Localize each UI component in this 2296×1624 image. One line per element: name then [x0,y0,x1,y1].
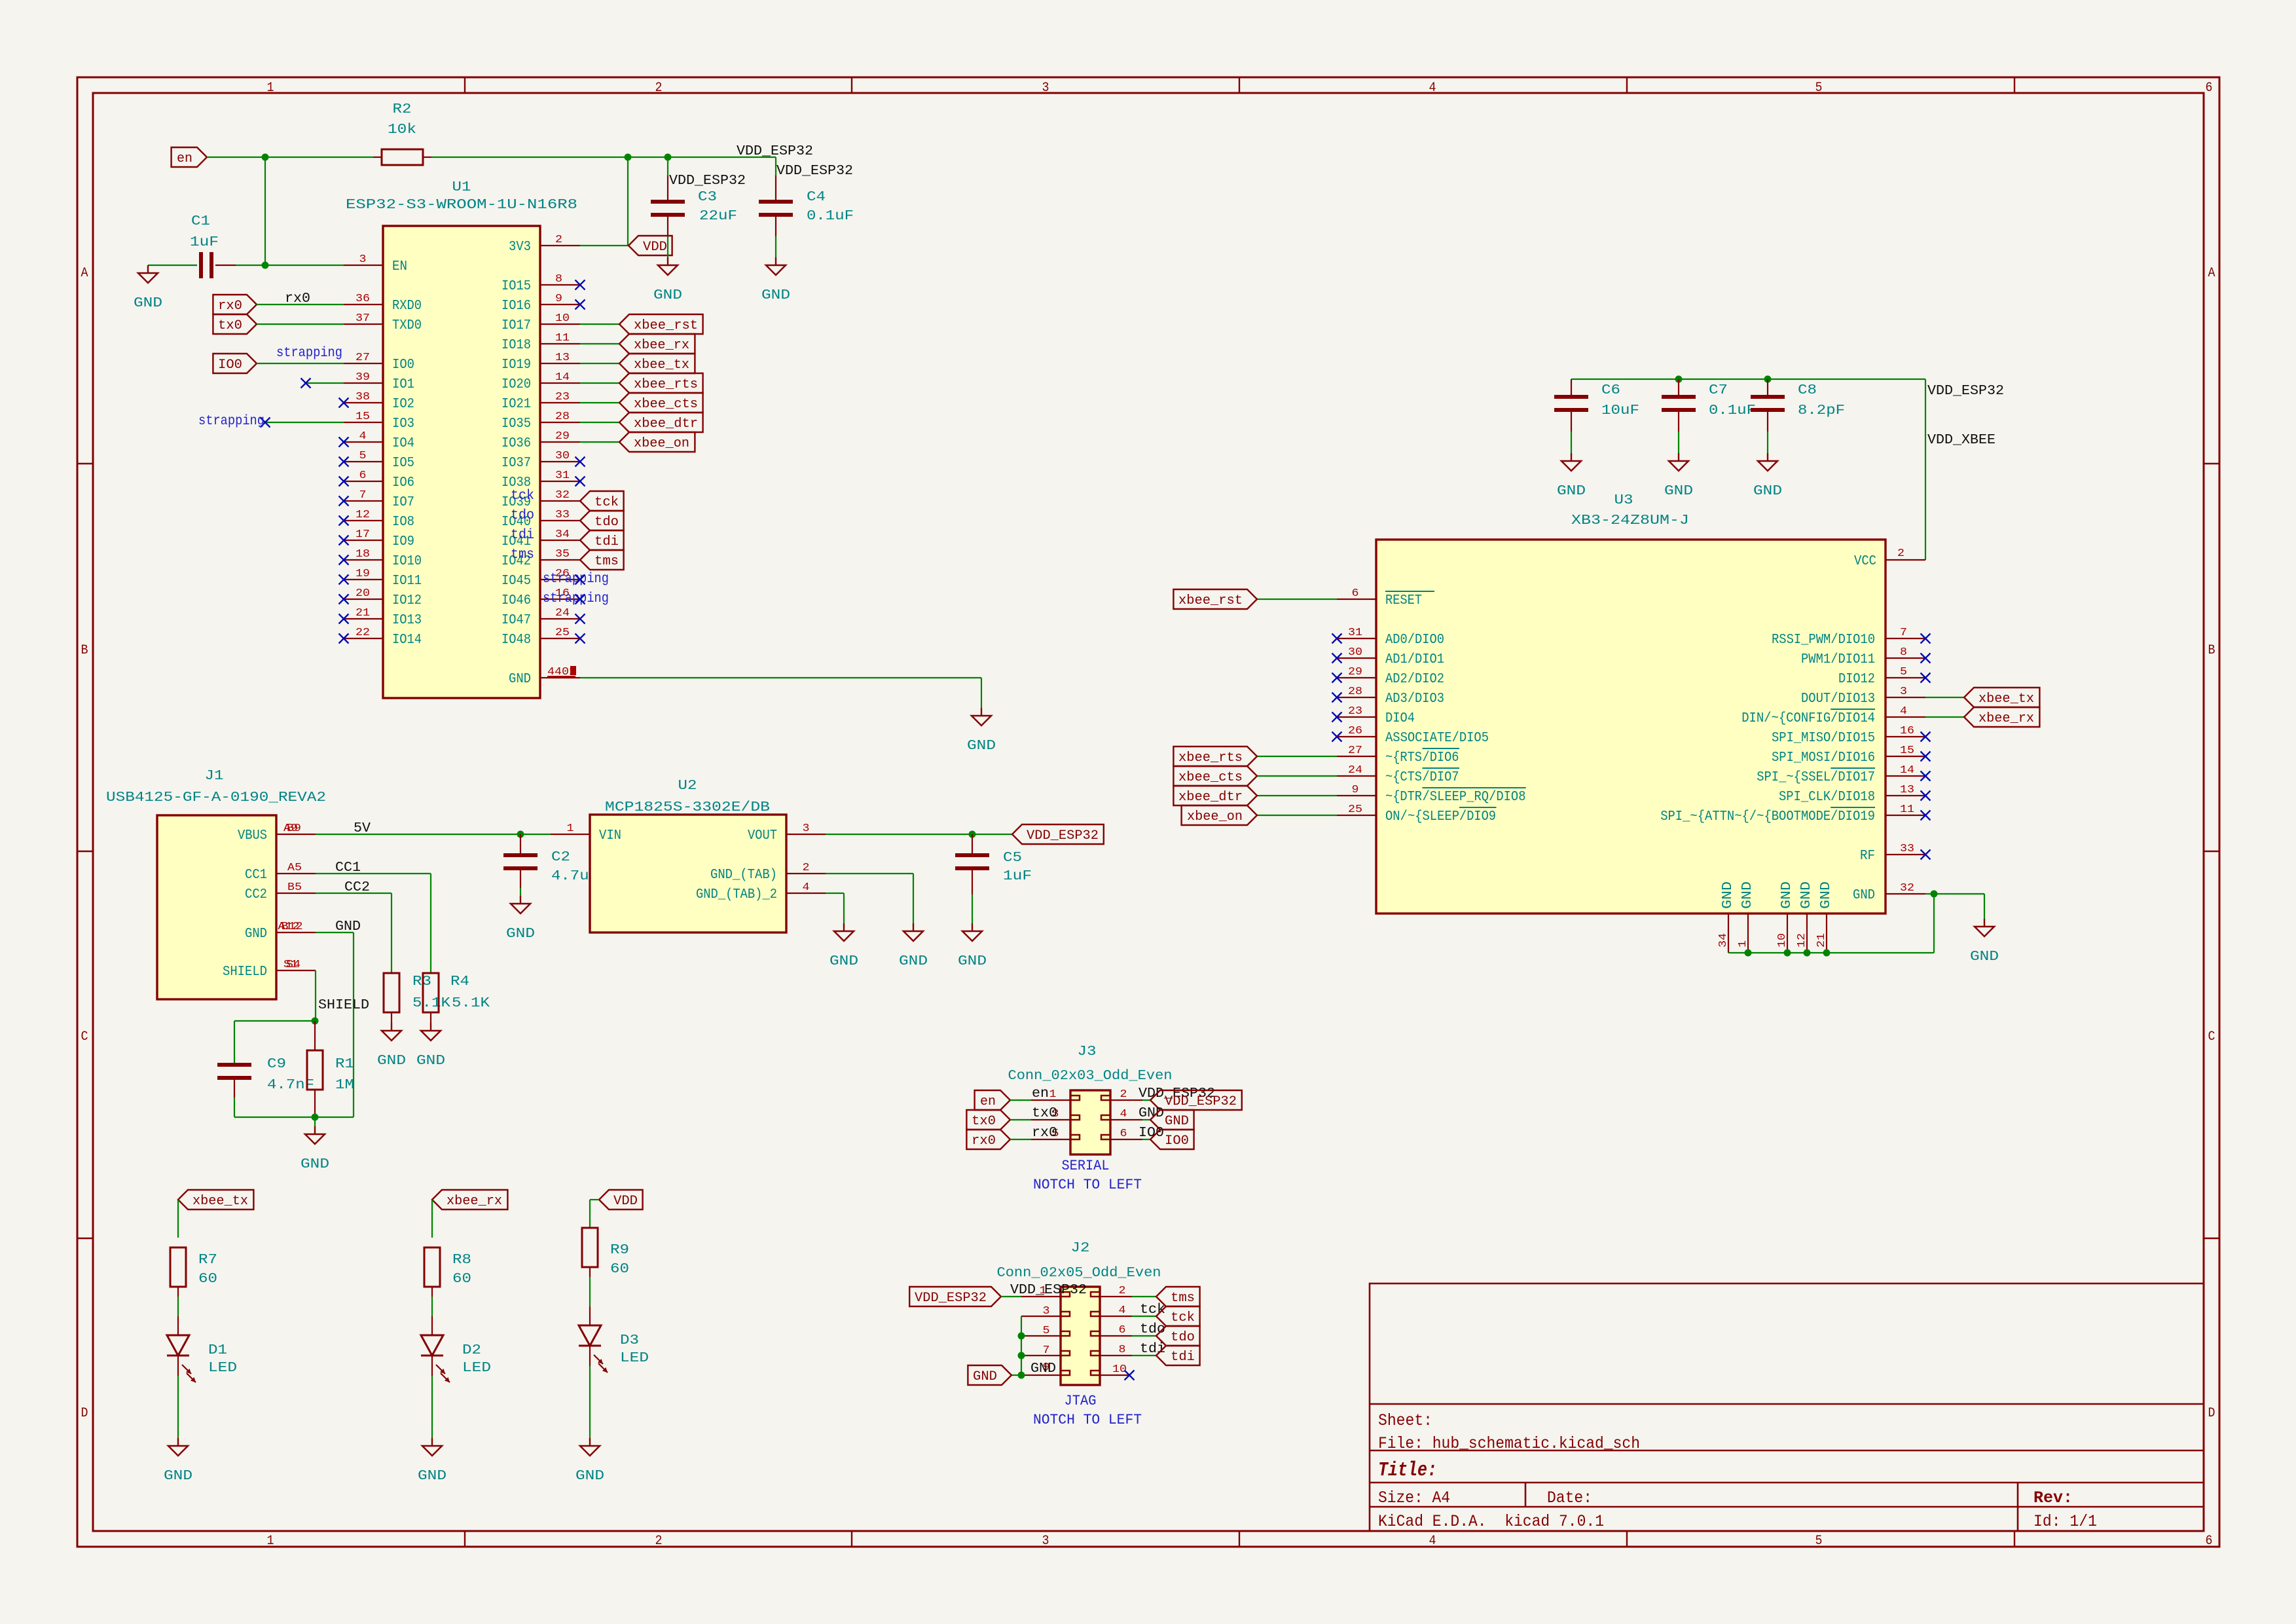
svg-text:GND: GND [1853,888,1875,903]
svg-text:9: 9 [555,293,562,305]
global label xbee_dtr [619,413,703,432]
svg-text:3: 3 [803,822,810,835]
svg-text:29: 29 [555,430,570,443]
svg-text:4: 4 [1429,1534,1436,1549]
svg-text:GND_(TAB): GND_(TAB) [710,868,777,883]
svg-text:xbee_rx: xbee_rx [446,1194,502,1209]
svg-text:VDD_ESP32: VDD_ESP32 [1165,1094,1237,1109]
U1 pin 27 IO0 [344,352,414,373]
wire U2 pin2 gnd [826,873,913,874]
global label IO0 J3 [1150,1130,1194,1149]
svg-text:2: 2 [803,862,810,874]
svg-text:5: 5 [1815,81,1823,96]
svg-text:1uF: 1uF [190,235,219,250]
wire IO0 [257,363,344,364]
capacitor C5 [955,834,1032,923]
no-connect U3 left [1332,634,1342,644]
ground symbol C4 [761,257,790,303]
global label tck [580,491,624,511]
U2 pin 4 GND_(TAB)_2 [696,881,826,902]
J1 pin S1 SHIELD [223,959,316,980]
wire en rail left of R2 [207,157,373,158]
svg-text:10: 10 [1776,933,1789,948]
svg-text:0.1uF: 0.1uF [1709,403,1756,418]
svg-text:VDD: VDD [613,1194,638,1209]
svg-text:tck: tck [511,489,534,504]
svg-text:3: 3 [359,253,367,266]
svg-text:LED: LED [462,1361,491,1376]
global label xbee_tx LED branch [178,1190,253,1209]
no-connect U1 left [339,437,349,447]
global label xbee_cts [619,393,703,413]
J3 pin 6 [1110,1139,1142,1140]
svg-text:NOTCH TO LEFT: NOTCH TO LEFT [1033,1412,1142,1428]
U1 pin 3 EN [344,253,407,274]
svg-text:7: 7 [1900,627,1907,639]
no-connect U1 left [339,536,349,545]
svg-text:VOUT: VOUT [748,828,777,843]
ground symbol R4 [416,1023,445,1069]
no-connect U1 left [339,496,349,506]
svg-text:RESET: RESET [1385,593,1422,608]
U3 pin 13 SPI_CLK/DIO18 [1779,784,1925,805]
svg-text:14: 14 [1900,764,1914,777]
svg-text:GND_(TAB)_2: GND_(TAB)_2 [696,887,777,902]
svg-text:tdi: tdi [594,534,619,549]
wire R9 to D3 [589,1267,591,1277]
LED D1 [167,1335,196,1382]
svg-text:D: D [2208,1406,2215,1421]
svg-text:B: B [2208,643,2215,658]
svg-text:~{CTS: ~{CTS [1385,770,1422,785]
svg-text:IO3: IO3 [392,416,414,432]
junction GND bus [1745,950,1752,957]
svg-text:C1: C1 [191,214,210,229]
svg-text:C3: C3 [698,190,717,205]
resistor R7 [170,1247,217,1287]
svg-text:10: 10 [555,312,570,325]
global label xbee_on [619,432,695,452]
svg-text:2: 2 [655,81,663,96]
title block [1370,1283,2204,1531]
ground symbol C7 [1664,453,1693,499]
U3 GND pin 10 [1776,881,1795,953]
svg-text:IO7: IO7 [392,495,414,510]
svg-text:IO47: IO47 [501,613,531,628]
U3 pin 32 GND [1853,882,1925,903]
svg-text:~{RTS: ~{RTS [1385,750,1422,766]
U1 pin 35 IO42 [501,548,580,569]
U1 pin 31 IO38 [501,470,580,490]
svg-text:xbee_dtr: xbee_dtr [634,416,698,432]
no-connect U3 right [1921,634,1931,644]
svg-text:D1: D1 [208,1343,227,1358]
ground symbol C6 [1557,453,1586,499]
svg-text:2: 2 [555,234,562,246]
wire SHIELD net [315,970,316,1021]
wire en J3 [1010,1099,1031,1101]
svg-text:GND: GND [418,1469,446,1484]
svg-text:60: 60 [452,1272,471,1287]
svg-text:VDD_ESP32: VDD_ESP32 [1927,384,2004,399]
global label xbee_rst [619,314,703,334]
global label tms [580,550,624,570]
global label xbee_dtr U3 [1173,786,1257,805]
J3 pin socket left [1070,1115,1080,1120]
svg-text:Sheet:: Sheet: [1378,1411,1432,1430]
wire 5V net [316,834,551,835]
svg-text:GND: GND [245,927,267,942]
ground symbol D3 [575,1438,604,1484]
svg-text:C9: C9 [267,1057,286,1072]
svg-text:DOUT/DIO13: DOUT/DIO13 [1801,692,1875,707]
svg-text:VCC: VCC [1854,554,1876,569]
U1 pin 19 IO11 [344,568,422,589]
no-connect U3 right [1921,791,1931,801]
U3 pin 3 DOUT/DIO13 [1801,686,1925,707]
svg-text:GND: GND [653,288,682,303]
no-connect IO3 with wire [265,422,344,423]
no-connect U3 right [1921,732,1931,742]
U1 pin 7 IO7 [344,489,414,510]
global label VDD_ESP32 J3 [1150,1090,1242,1110]
svg-text:26: 26 [1348,725,1362,737]
capacitor C2 [503,834,598,896]
wire tms J2 [1132,1296,1156,1297]
svg-text:GND: GND [973,1369,997,1384]
U1 pin 28 IO35 [501,411,580,432]
svg-text:GND: GND [575,1469,604,1484]
global label xbee_cts U3 [1173,766,1257,786]
svg-text:GND: GND [899,954,928,969]
svg-text:IO18: IO18 [501,338,531,353]
svg-text:GND: GND [1557,484,1586,499]
svg-text:rx0: rx0 [285,291,310,306]
svg-text:R9: R9 [610,1243,629,1258]
svg-text:TXD0: TXD0 [392,318,422,333]
J2 pin socket left [1061,1312,1070,1316]
svg-text:GND: GND [958,954,987,969]
svg-text:VDD_ESP32: VDD_ESP32 [669,174,746,189]
svg-text:20: 20 [355,587,370,600]
U3 pin 25 ON/~{SLEEP/DIO9 [1337,803,1497,824]
svg-text:VDD_XBEE: VDD_XBEE [1927,433,1995,448]
svg-text:EN: EN [392,259,407,274]
svg-text:30: 30 [1348,646,1362,659]
svg-text:strapping: strapping [198,414,264,429]
J3 pin 1 [1031,1099,1070,1101]
svg-text:D: D [81,1406,88,1421]
no-connect U1 left [339,555,349,565]
svg-text:VIN: VIN [599,828,621,843]
no-connect U1 left [339,595,349,604]
wire xbee_on U3 [1257,815,1337,816]
svg-text:4: 4 [359,430,367,443]
wire xbee_rx branch top [431,1200,433,1238]
wire xbee_cts U3 [1257,775,1337,777]
global label xbee_rx LED branch [432,1190,507,1209]
no-connect U1 left [339,477,349,487]
svg-text:B5: B5 [287,881,302,894]
svg-text:1: 1 [267,81,274,96]
svg-text:GND: GND [134,296,162,311]
wire GND pin32 to ground [1925,893,1984,895]
U3 pin 8 PWM1/DIO11 [1801,646,1925,667]
global label xbee_rts U3 [1173,747,1257,766]
wire xbee_tx branch top [177,1200,179,1238]
wire CC1 net [316,873,431,874]
svg-text:GND: GND [1970,950,1999,965]
wire rx0 J3 [1010,1139,1031,1140]
no-connect U3 left [1332,732,1342,742]
svg-text:GND: GND [829,954,858,969]
wire tx0 J3 [1010,1119,1031,1120]
svg-text:2: 2 [1120,1088,1127,1101]
svg-text:tms: tms [1171,1291,1195,1306]
svg-text:7: 7 [359,489,367,502]
svg-text:LED: LED [208,1361,237,1376]
U1 pin 37 TXD0 [344,312,422,333]
svg-text:tx0: tx0 [1032,1106,1057,1121]
wire R8 to D2 [431,1287,433,1297]
svg-text:8.2pF: 8.2pF [1798,403,1845,418]
U1 pin 18 IO10 [344,548,422,569]
svg-text:IO8: IO8 [392,515,414,530]
svg-text:31: 31 [555,470,570,482]
global label tdo J2 [1156,1326,1200,1346]
svg-text:IO6: IO6 [392,475,414,490]
ground symbol U2 pin2 [899,923,928,969]
no-connect U1 left [339,575,349,585]
U1 pin 4 IO4 [344,430,414,451]
svg-text:IO12: IO12 [392,593,422,608]
svg-text:xbee_rst: xbee_rst [1178,593,1243,608]
J1 pin B5 CC2 [245,881,316,902]
svg-text:GND: GND [1799,881,1814,909]
no-connect IO2 [339,398,349,408]
svg-text:GND: GND [377,1054,406,1069]
global label xbee_on U3 [1182,805,1257,825]
XBee module U3 [1376,493,1886,913]
U2 pin 1 VIN [551,822,621,843]
ground symbol D2 [418,1438,446,1484]
svg-text:27: 27 [355,352,370,364]
svg-text:8: 8 [1119,1344,1126,1356]
svg-text:/DIO17: /DIO17 [1831,770,1875,785]
svg-text:1: 1 [267,1534,274,1549]
U1 pin 38 IO2 [344,391,414,412]
no-connect U3 right [1921,654,1931,663]
svg-text:J3: J3 [1078,1044,1097,1060]
no-connect IO47 [575,614,585,624]
U3 pin 27 ~{RTS/DIO6 [1337,745,1459,766]
junction C7 [1675,376,1683,383]
svg-text:C4: C4 [807,190,826,205]
svg-text:37: 37 [355,312,370,325]
wire to ground J1 [314,1117,316,1126]
U1 pin 2 3V3 [509,234,580,255]
U3 pin 16 SPI_MISO/DIO15 [1772,725,1925,746]
svg-text:VDD_ESP32: VDD_ESP32 [1027,828,1099,843]
svg-text:VDD_ESP32: VDD_ESP32 [737,144,813,159]
svg-text:ASSOCIATE/DIO5: ASSOCIATE/DIO5 [1385,731,1489,746]
wire xbee_cts [580,402,619,403]
svg-text:xbee_rx: xbee_rx [1978,711,2034,726]
U1 pin 10 IO17 [501,312,580,333]
svg-text:tx0: tx0 [972,1114,996,1129]
U3 pin 4 DIN/~{CONFIG/DIO14 [1741,705,1925,726]
svg-text:IO36: IO36 [501,436,531,451]
svg-text:28: 28 [555,411,570,423]
svg-text:strapping: strapping [276,346,342,361]
svg-text:xbee_on: xbee_on [634,436,689,451]
no-connect U3 left [1332,712,1342,722]
svg-text:U1: U1 [452,180,471,195]
no-connect IO16 [575,300,585,310]
svg-text:DIN/~{CONFIG: DIN/~{CONFIG [1741,711,1831,726]
svg-text:34: 34 [1717,933,1730,948]
global label tx0 J3 [966,1110,1010,1130]
svg-text:AD0/DIO0: AD0/DIO0 [1385,633,1444,648]
J3 pin socket right [1101,1135,1110,1139]
svg-text:14: 14 [555,371,570,384]
svg-text:5.1K: 5.1K [452,996,490,1011]
svg-text:10k: 10k [388,122,416,138]
U3 pin 33 RF [1860,843,1925,864]
svg-text:IO13: IO13 [392,613,422,628]
svg-text:J2: J2 [1071,1241,1090,1256]
svg-text:VDD: VDD [643,240,667,255]
svg-text:32: 32 [1900,882,1914,895]
svg-text:32: 32 [555,489,570,502]
J2 pin 4 [1100,1316,1132,1317]
svg-text:IO0: IO0 [392,358,414,373]
connector J3 [1008,1044,1173,1154]
svg-text:tdo: tdo [1171,1330,1195,1345]
junction EN pin node [262,262,269,269]
ground symbol C5 [958,923,987,969]
svg-text:31: 31 [1348,627,1362,639]
capacitor C8 [1751,379,1845,453]
U1 pin 5 IO5 [344,450,414,471]
J3 pin socket right [1101,1096,1110,1100]
svg-text:4: 4 [1119,1304,1126,1317]
U2 pin 2 GND_(TAB) [710,862,826,883]
U1 pin 32 IO39 [501,489,580,510]
global label tdi [580,530,624,550]
wire tx0 [257,323,344,325]
wire xbee_dtr U3 [1257,795,1337,796]
svg-text:rx0: rx0 [1032,1126,1057,1141]
global label VDD LED branch [599,1190,643,1209]
svg-text:xbee_tx: xbee_tx [1978,692,2034,707]
capacitor C6 [1554,379,1639,453]
no-connect U3 right [1921,811,1931,821]
svg-text:5: 5 [1043,1325,1050,1337]
J3 pin socket left [1070,1096,1080,1100]
svg-text:xbee_cts: xbee_cts [634,397,698,412]
U1 pin 36 RXD0 [344,293,422,314]
svg-text:22: 22 [355,627,370,639]
J2 pin 7 [1021,1355,1061,1356]
J2 pin socket right [1091,1351,1100,1356]
U1 pin 6 IO6 [344,470,414,490]
U1 pin 15 IO3 [344,411,414,432]
U3 pin 2 VCC [1854,547,1925,569]
wire xbee_rst [580,323,619,325]
svg-text:60: 60 [198,1272,217,1287]
no-connect IO48 [575,634,585,644]
svg-text:27: 27 [1348,745,1362,757]
svg-text:IO14: IO14 [392,633,422,648]
svg-text:IO2: IO2 [392,397,414,412]
resistor R8 [424,1247,471,1287]
svg-text:2: 2 [1897,547,1904,560]
svg-text:6: 6 [2206,1534,2213,1549]
wire xbee_rx [580,343,619,344]
junction GND pin32 [1931,891,1938,898]
svg-text:tdi: tdi [1171,1350,1195,1365]
svg-text:AD2/DIO2: AD2/DIO2 [1385,672,1444,687]
svg-text:IO10: IO10 [392,554,422,569]
svg-text:DIO4: DIO4 [1385,711,1415,726]
svg-text:IO5: IO5 [392,456,414,471]
ESP32 module U1 [346,180,577,698]
U1 GND pin 1/40/41 [509,666,580,687]
global label xbee_tx U3 [1964,688,2039,707]
svg-text:rx0: rx0 [218,299,242,314]
J3 pin 2 [1110,1099,1142,1101]
svg-text:R8: R8 [452,1253,471,1268]
ground symbol C2 [506,896,535,942]
U3 pin 24 ~{CTS/DIO7 [1337,764,1459,785]
no-connect U3 right [1921,850,1931,860]
svg-text:7: 7 [1043,1344,1050,1357]
svg-text:24: 24 [555,607,570,619]
resistor R3 [384,973,450,1023]
svg-text:xbee_tx: xbee_tx [634,358,689,373]
global label rx0 [213,295,257,314]
svg-text:GND: GND [1819,881,1834,909]
svg-text:13: 13 [555,352,570,364]
U1 pin 11 IO18 [501,332,580,353]
resistor R2 [373,102,431,165]
svg-text:D3: D3 [620,1333,639,1348]
svg-text:4: 4 [1900,705,1907,718]
svg-text:U2: U2 [678,779,697,794]
junction SHIELD R1 [312,1018,319,1025]
no-connect U3 right [1921,673,1931,683]
U1 pin 12 IO8 [344,509,414,530]
svg-text:29: 29 [1348,666,1362,678]
svg-text:GND: GND [1030,1361,1056,1376]
no-connect U1 left [339,457,349,467]
svg-text:tdo: tdo [594,515,619,530]
J2 pin socket left [1061,1292,1070,1297]
svg-text:8: 8 [555,273,562,286]
wire J2 gnd bus [1021,1316,1022,1375]
U2 pin 3 VOUT [748,822,826,843]
svg-text:~{DTR: ~{DTR [1385,790,1422,805]
U1 pin 21 IO13 [344,607,422,628]
svg-text:Conn_02x03_Odd_Even: Conn_02x03_Odd_Even [1008,1069,1173,1084]
svg-text:GND: GND [509,672,531,687]
J2 pin 10 [1100,1375,1129,1376]
wire EN net to pin [265,265,344,266]
U1 pin 13 IO19 [501,352,580,373]
wire D3 to ground [589,1346,591,1366]
svg-text:IO45: IO45 [501,574,531,589]
